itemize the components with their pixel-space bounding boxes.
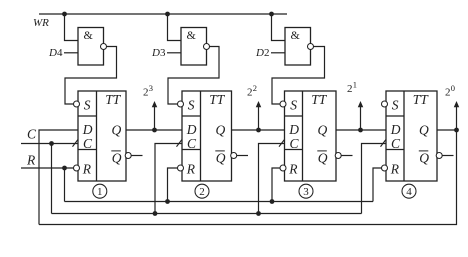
wire R-bus riser (left) [64, 168, 66, 202]
gate D4 inverting output bubble [101, 44, 107, 50]
wire flip-flop 3 R input to R bus [272, 168, 280, 202]
flip-flop 3 pin Q label [318, 122, 328, 137]
svg-text:S: S [188, 97, 195, 112]
flip-flop 2 pin Qbar label [215, 150, 226, 165]
wire C bus riser to flip-flop 3 C input [259, 144, 285, 214]
flip-flop 1 pin Q label [112, 122, 122, 137]
output arrow 2^2 [256, 101, 262, 130]
flip-flop 4 body (TT) [386, 91, 437, 181]
svg-text:C: C [83, 136, 93, 151]
svg-text:C: C [187, 136, 197, 151]
flip-flop 4 pin C dynamic edge mark [381, 140, 386, 147]
flip-flop 1 pin D label [82, 122, 93, 137]
flip-flop 3 R input bubble [280, 165, 286, 171]
flip-flop 4 R section divider [386, 149, 404, 151]
svg-text:R: R [82, 162, 92, 177]
svg-text:C: C [27, 126, 37, 141]
svg-text:Q: Q [216, 122, 226, 137]
gate D4 function label &amp; [84, 28, 94, 42]
flip-flop 1 pin S label [84, 97, 91, 112]
flip-flop 3 S input bubble [280, 101, 286, 107]
wire gate D2 output to flip-flop 3 S input [272, 47, 325, 105]
flip-flop 2 body (TT) [182, 91, 232, 181]
svg-text:Q: Q [318, 122, 328, 137]
svg-text:D: D [288, 122, 299, 137]
wire C bus riser to flip-flop 2 C input [155, 144, 182, 214]
svg-text:TT: TT [209, 92, 226, 107]
NAND gate D2 body [285, 28, 311, 66]
wire flip-flop 4 Qbar stub [442, 155, 453, 157]
flip-flop 3 pin S label [290, 97, 297, 112]
svg-text:R: R [288, 162, 298, 177]
svg-text:2: 2 [199, 186, 205, 198]
flip-flop 4 pin Qbar label [419, 150, 430, 165]
wire flip-flop 3 Q output to flip-flop 4 D input [336, 129, 386, 131]
svg-text:Q: Q [419, 122, 429, 137]
flip-flop 2 number plate 2 [195, 184, 209, 198]
svg-text:S: S [392, 97, 399, 112]
flip-flop 1 number plate 1 [93, 184, 107, 198]
flip-flop 2 pin column divider [200, 91, 202, 181]
svg-text:S: S [290, 97, 297, 112]
svg-text:2: 2 [143, 87, 149, 99]
junction on C line at C-bus riser [49, 141, 54, 146]
junction R bus / flip-flop 3 riser [270, 199, 275, 204]
flip-flop 1 R input bubble [74, 165, 80, 171]
flip-flop 3 pin C dynamic edge mark [279, 140, 284, 147]
svg-text:S: S [84, 97, 91, 112]
flip-flop 3 pin C label [290, 136, 300, 151]
svg-text:R: R [390, 162, 400, 177]
flip-flop 1 pin R label [82, 162, 92, 177]
svg-text:2: 2 [253, 83, 257, 93]
flip-flop 1 R section divider [78, 149, 97, 151]
flip-flop 2 label TT [209, 92, 226, 107]
svg-text:TT: TT [311, 92, 328, 107]
svg-text:2: 2 [247, 87, 253, 99]
flip-flop 2 R section divider [182, 149, 201, 151]
wire WR rail to gate D2 input 1 [272, 14, 286, 41]
node output label 2^2 [247, 83, 257, 99]
flip-flop 4 pin D label [390, 122, 401, 137]
svg-text:3: 3 [303, 186, 309, 198]
gate D2 inverting output bubble [308, 44, 314, 50]
node output label 2^3 [143, 83, 153, 99]
flip-flop 1 label TT [105, 92, 122, 107]
NAND gate D3 body [181, 28, 207, 66]
wire WR rail to gate D3 input 1 [168, 14, 182, 41]
svg-text:TT: TT [105, 92, 122, 107]
wire flip-flop 4 R input to R bus [373, 168, 382, 202]
gate D3 function label &amp; [187, 28, 197, 42]
NAND gate D4 body [78, 28, 104, 66]
svg-text:0: 0 [451, 83, 455, 93]
svg-text:1: 1 [97, 186, 103, 198]
flip-flop 3 pin R label [288, 162, 298, 177]
wire D feedback riser (left) to flip-flop 1 D input [39, 130, 78, 225]
junction on WR rail feeding gate D4 [62, 12, 67, 17]
wire gate D3 output to flip-flop 2 S input [168, 47, 219, 105]
wire D3 input to gate D3 input 2 [167, 52, 181, 54]
svg-text:Q: Q [419, 150, 429, 165]
wire WR rail to gate D4 input 1 [65, 14, 79, 41]
wire R bus [65, 201, 374, 203]
svg-text:Q: Q [318, 150, 328, 165]
wire R input line [21, 167, 74, 169]
flip-flop 2 Qbar output bubble [231, 153, 237, 159]
junction R bus / flip-flop 2 riser [165, 199, 170, 204]
svg-text:3: 3 [149, 83, 153, 93]
wire flip-flop 2 Qbar stub [237, 155, 248, 157]
svg-text:2: 2 [445, 87, 451, 99]
junction output tap 2^0 [454, 128, 459, 133]
wire C bus riser to flip-flop 4 C input [362, 144, 387, 214]
flip-flop 4 pin R label [390, 162, 400, 177]
svg-text:D: D [82, 122, 93, 137]
wire flip-flop 4 Q output to feedback tap [437, 129, 457, 131]
junction output tap 2^1 [358, 128, 363, 133]
svg-text:R: R [186, 162, 196, 177]
flip-flop 1 pin C label [83, 136, 93, 151]
wire flip-flop 2 R input to R bus [168, 168, 178, 202]
wire flip-flop 2 Q output to flip-flop 3 D input [232, 129, 285, 131]
node output label 2^1 [347, 80, 357, 96]
svg-text:D: D [390, 122, 401, 137]
junction on R line at R-bus riser [62, 166, 67, 171]
wire C-bus riser (left) [51, 144, 53, 214]
output arrow 2^0 [454, 101, 460, 130]
flip-flop 3 pin column divider [302, 91, 304, 181]
flip-flop 2 pin Q label [216, 122, 226, 137]
svg-text:TT: TT [413, 92, 430, 107]
gate D2 function label &amp; [291, 28, 301, 42]
flip-flop 4 R input bubble [382, 165, 388, 171]
svg-text:2: 2 [347, 83, 353, 95]
node D2 data input label [255, 47, 269, 59]
flip-flop 3 pin D label [288, 122, 299, 137]
flip-flop 1 S input bubble [74, 101, 80, 107]
svg-text:WR: WR [33, 17, 49, 29]
svg-text:C: C [391, 136, 401, 151]
node R reset input label [26, 153, 36, 168]
svg-text:Q: Q [216, 150, 226, 165]
wire gate D4 output to flip-flop 1 S input [65, 47, 117, 105]
wire flip-flop 3 Qbar stub [341, 155, 352, 157]
svg-text:Q: Q [112, 150, 122, 165]
flip-flop 2 pin S label [188, 97, 195, 112]
flip-flop 3 number plate 3 [299, 184, 313, 198]
svg-text:4: 4 [406, 186, 412, 198]
wire D2 input to gate D2 input 2 [271, 52, 285, 54]
flip-flop 2 S input bubble [178, 101, 184, 107]
junction on WR rail feeding gate D3 [165, 12, 170, 17]
flip-flop 1 pin Qbar label [111, 150, 122, 165]
output arrow 2^3 [152, 101, 158, 130]
node output label 2^0 [445, 83, 455, 99]
svg-text:R: R [26, 153, 36, 168]
flip-flop 2 pin R label [186, 162, 196, 177]
svg-text:&: & [187, 28, 197, 42]
wire D4 input to gate D4 input 2 [64, 52, 78, 54]
flip-flop 3 R section divider [285, 149, 303, 151]
wire flip-flop 1 Q output to flip-flop 2 D input [126, 129, 182, 131]
junction output tap 2^3 [152, 128, 157, 133]
svg-text:&: & [291, 28, 301, 42]
node WR input label [33, 17, 49, 29]
flip-flop 3 label TT [311, 92, 328, 107]
flip-flop 4 pin C label [391, 136, 401, 151]
svg-text:D: D [186, 122, 197, 137]
gate D3 inverting output bubble [204, 44, 210, 50]
flip-flop 4 pin Q label [419, 122, 429, 137]
flip-flop 3 Qbar output bubble [335, 153, 341, 159]
junction output tap 2^2 [256, 128, 261, 133]
junction C bus / flip-flop 3 riser [256, 211, 261, 216]
svg-text:C: C [290, 136, 300, 151]
node D3 data input label [151, 47, 166, 59]
flip-flop 1 Qbar output bubble [125, 153, 131, 159]
svg-text:&: & [84, 28, 94, 42]
flip-flop 2 pin D label [186, 122, 197, 137]
flip-flop 1 body (TT) [78, 91, 126, 181]
flip-flop 2 pin C label [187, 136, 197, 151]
wire feedback bus (ring) [39, 130, 457, 225]
flip-flop 4 pin column divider [403, 91, 405, 181]
junction C bus / flip-flop 2 riser [153, 211, 158, 216]
svg-text:1: 1 [353, 80, 357, 90]
flip-flop 3 body (TT) [285, 91, 337, 181]
flip-flop 4 S input bubble [382, 101, 388, 107]
flip-flop 2 R input bubble [178, 165, 184, 171]
flip-flop 4 label TT [413, 92, 430, 107]
wire WR top rail [39, 13, 287, 15]
wire C bus [52, 213, 362, 215]
wire C input line [21, 143, 78, 145]
svg-text:D2: D2 [255, 47, 269, 59]
svg-text:Q: Q [112, 122, 122, 137]
flip-flop 4 Qbar output bubble [436, 153, 442, 159]
flip-flop 1 S section divider [78, 115, 97, 117]
flip-flop 3 S section divider [285, 115, 303, 117]
node D4 data input label [48, 47, 63, 59]
flip-flop 2 pin C dynamic edge mark [177, 140, 182, 147]
flip-flop 4 S section divider [386, 115, 404, 117]
flip-flop 4 number plate 4 [402, 184, 416, 198]
flip-flop 3 pin Qbar label [317, 150, 328, 165]
svg-text:D4: D4 [48, 47, 63, 59]
flip-flop 4 pin S label [392, 97, 399, 112]
flip-flop 1 pin column divider [96, 91, 98, 181]
wire flip-flop 1 Qbar stub [131, 155, 142, 157]
svg-text:D3: D3 [151, 47, 166, 59]
output arrow 2^1 [358, 101, 364, 130]
junction on WR rail feeding gate D2 [269, 12, 274, 17]
flip-flop 2 S section divider [182, 115, 201, 117]
flip-flop 1 pin C dynamic edge mark [73, 140, 78, 147]
node C clock input label [27, 126, 37, 141]
